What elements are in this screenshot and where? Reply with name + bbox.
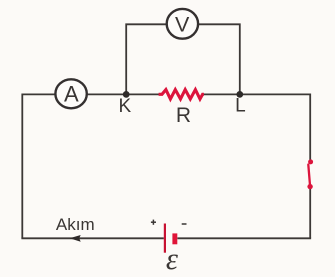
svg-text:A: A — [64, 82, 79, 107]
battery short plate (-) — [172, 233, 177, 244]
wire: ammeter to resistor (through node K) — [87, 93, 159, 95]
resistor R — [159, 90, 204, 99]
wire: bottom rail left (battery plus to left corner) — [21, 237, 163, 239]
svg-text:Akım: Akım — [56, 215, 95, 234]
polarity - — [182, 223, 187, 225]
svg-text:ε: ε — [166, 242, 178, 276]
wire: bottom rail right (corner to battery minus) — [177, 237, 311, 239]
node K (junction dot) — [123, 91, 130, 98]
svg-text:V: V — [175, 12, 190, 36]
polarity + — [151, 220, 156, 225]
battery cell, EMF source — [151, 220, 187, 276]
switch S (open, on right side) — [307, 159, 313, 189]
svg-text:K: K — [119, 96, 132, 117]
node L (junction dot) — [236, 91, 243, 98]
battery long plate (+) — [164, 224, 166, 253]
wire: top rail, left corner to ammeter — [22, 94, 55, 238]
svg-text:R: R — [176, 104, 191, 127]
current direction arrow (Akim) — [70, 235, 81, 242]
wire: voltmeter branch, voltmeter right and down to node L — [198, 24, 240, 94]
wire: right vertical lower (switch to bottom corner) — [309, 188, 311, 238]
ammeter A — [55, 79, 86, 108]
wire: voltmeter branch, node K up and right to voltmeter — [126, 24, 167, 94]
wire: resistor to top-right corner (through node L) — [203, 93, 310, 95]
voltmeter V — [167, 9, 198, 39]
svg-text:L: L — [235, 96, 246, 117]
wire: right vertical upper (to switch top contact) — [309, 94, 311, 161]
